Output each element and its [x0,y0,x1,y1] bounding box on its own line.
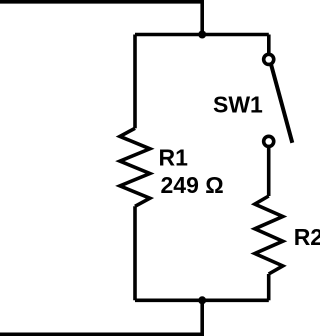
wire switch bottom lead [267,148,271,197]
wire top horizontal bus [135,33,269,37]
resistor R1 [120,128,150,206]
wire right branch lower [267,274,271,300]
switch SW1 blade [271,64,292,143]
node bottom junction dot [198,296,206,304]
wire left branch upper [133,35,137,129]
wire left branch lower [133,206,137,300]
svg-text:249 Ω: 249 Ω [161,172,224,198]
wire top feed from left edge to top node [0,2,202,35]
switch SW1 bottom contact [264,136,274,146]
node top junction dot [198,31,206,39]
switch SW1 top contact [264,54,274,64]
svg-text:R2: R2 [294,224,320,250]
svg-text:R1: R1 [159,145,189,171]
resistor R2 [255,196,283,274]
wire bottom horizontal bus [135,298,269,302]
svg-text:SW1: SW1 [213,92,263,118]
wire bottom return to left edge [0,300,202,334]
wire switch top lead [267,35,271,54]
